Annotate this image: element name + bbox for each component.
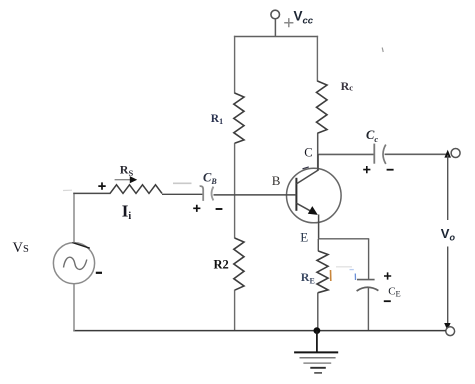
resistor Rc [317, 81, 328, 133]
resistor RE [317, 251, 328, 293]
capacitor Cc [373, 144, 375, 164]
svg-text:Rc: Rc [341, 79, 354, 93]
capacitor CB right plate [212, 187, 214, 201]
svg-text:B: B [272, 173, 281, 188]
capacitor CE bottom plate (arc) [357, 287, 379, 291]
transistor collector stub [317, 154, 319, 171]
wire source top vertical [73, 193, 75, 243]
light blue dash artifact near CE [350, 269, 354, 271]
svg-text:Vo: Vo [441, 226, 456, 243]
ground stem [316, 331, 318, 353]
orange artifact near RE [330, 270, 332, 281]
wire C node to Cc [317, 153, 374, 155]
arrow down at output [444, 323, 450, 330]
resistor R1 [234, 93, 244, 143]
wire Rc top [316, 36, 318, 82]
junction dot [314, 327, 321, 334]
current arrow over Rs [115, 179, 131, 181]
minus sign CB [216, 208, 223, 210]
wire R1-R2 middle [234, 143, 236, 238]
ground bar 2 [300, 357, 336, 359]
output terminal bottom [446, 327, 455, 336]
Vcc terminal [271, 10, 280, 19]
wire CB to base [214, 194, 297, 196]
svg-text:VS: VS [13, 240, 29, 256]
svg-text:Ii: Ii [122, 201, 132, 222]
output terminal top [451, 149, 460, 158]
plus sign Vcc [284, 18, 293, 27]
ground bar 4 [310, 367, 326, 369]
minus sign at source [96, 272, 102, 274]
transistor Q1 circle [287, 168, 342, 223]
resistor R2 [234, 238, 244, 290]
sine wave inside source [64, 257, 87, 269]
svg-text:R2: R2 [214, 258, 229, 272]
smudge line on source top [73, 243, 90, 249]
svg-text:RS: RS [120, 163, 134, 178]
transistor emitter diagonal [296, 203, 312, 212]
transistor emitter stub [318, 215, 320, 240]
arrow up at output [444, 150, 451, 158]
wire E node horizontal to CE [318, 238, 369, 240]
wire top rail [234, 36, 318, 38]
faint dashes artifact left of RE (pencil) [336, 266, 352, 268]
ground bar 3 [303, 362, 331, 364]
wire CE bottom vertical [367, 288, 369, 331]
plus sign left of Rs [98, 182, 105, 189]
capacitor CE top plate [357, 279, 375, 281]
wire Vcc stem [274, 19, 276, 37]
wire RE bottom [317, 292, 319, 331]
ground bar 5 [314, 372, 322, 374]
svg-text:CB: CB [203, 170, 217, 186]
svg-text:C: C [304, 145, 312, 159]
minus sign CE [384, 300, 391, 302]
smudge at transistor top [303, 167, 309, 169]
plus sign CB [193, 205, 200, 212]
bottom rail [73, 330, 446, 332]
transistor emitter arrow [308, 206, 318, 215]
transistor collector diagonal [296, 170, 318, 184]
svg-text:Cc: Cc [366, 128, 378, 144]
wire Cc to output terminal [385, 153, 448, 155]
wire CE top vertical [368, 239, 370, 280]
wire R2 bottom [234, 290, 236, 331]
wire R1 top [234, 36, 236, 94]
wire E to RE [317, 239, 319, 251]
blue tick artifact near CE [354, 274, 356, 281]
plus sign Cc [363, 166, 370, 173]
transistor base bar [295, 178, 297, 211]
plus sign CE [384, 272, 391, 279]
wire Vo lower [447, 247, 449, 325]
wire Rs to CB [162, 193, 203, 195]
svg-text:CE: CE [388, 286, 401, 299]
faint smudge left of plus (wire lead-in) [63, 189, 72, 191]
minus sign Cc [387, 169, 394, 171]
svg-text:Vcc: Vcc [294, 8, 314, 26]
resistor Rs [110, 185, 162, 194]
wire Rc bottom to collector [317, 133, 319, 171]
svg-text:RE: RE [301, 270, 315, 285]
capacitor CB left plate with hook [200, 186, 204, 201]
ground bar 1 [294, 351, 338, 353]
source Vs circle [53, 243, 94, 284]
wire left horizontal to Rs [73, 192, 110, 194]
faint smudge right of Rs [173, 182, 192, 184]
svg-text:E: E [300, 229, 308, 244]
wire source bottom vertical [73, 284, 75, 332]
svg-text:R1: R1 [211, 113, 223, 126]
tiny apostrophe artifact top right [382, 48, 383, 53]
wire Vo upper [447, 155, 449, 220]
